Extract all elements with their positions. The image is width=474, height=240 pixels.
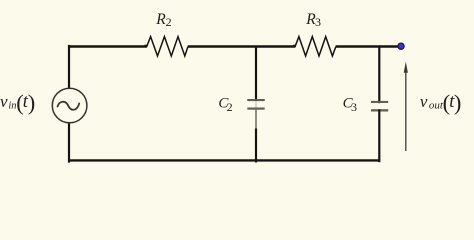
svg-text:): ): [454, 90, 462, 115]
svg-text:3: 3: [351, 100, 357, 114]
svg-text:R: R: [155, 11, 166, 28]
svg-text:): ): [28, 90, 36, 115]
svg-text:2: 2: [227, 100, 233, 114]
svg-text:2: 2: [166, 15, 172, 29]
svg-text:v: v: [420, 92, 428, 111]
svg-text:v: v: [0, 92, 8, 111]
svg-text:3: 3: [315, 15, 321, 29]
